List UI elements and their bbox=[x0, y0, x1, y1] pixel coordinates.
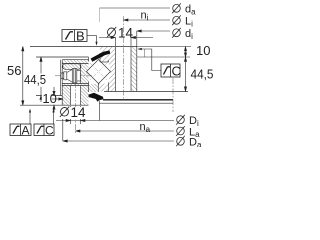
inner ring bolt hole verticals bbox=[115, 47, 117, 92]
svg-text:C: C bbox=[172, 64, 181, 79]
inner ring hatch right of hole bbox=[131, 47, 137, 92]
d_i leader bbox=[137, 30, 170, 32]
label phi D_i bbox=[176, 115, 185, 125]
L_a / n_a leader bbox=[76, 130, 175, 132]
svg-text:Li: Li bbox=[185, 16, 193, 29]
bearing axis centerline bbox=[172, 78, 174, 112]
svg-text:da: da bbox=[185, 4, 196, 17]
dim 10 right bbox=[185, 47, 187, 58]
flag C bottom bbox=[34, 124, 54, 136]
outer ring wall right of nipple recess bbox=[80, 64, 88, 84]
text masks bbox=[25, 74, 89, 120]
outer ring upper section hatch bbox=[62, 60, 88, 64]
D_a leader bbox=[63, 140, 174, 142]
inner ring ID edge bbox=[136, 47, 138, 92]
svg-text:na: na bbox=[140, 121, 151, 134]
outer/gap boundary vertical x=88 bbox=[88, 57, 90, 62]
dim 10 left bbox=[53, 87, 55, 92]
svg-text:Da: Da bbox=[189, 137, 202, 147]
svg-text:44,5: 44,5 bbox=[191, 67, 214, 82]
svg-text:14: 14 bbox=[118, 26, 134, 41]
label phi d_i bbox=[172, 28, 181, 38]
gap under roller bbox=[97, 84, 99, 93]
svg-text:44,5: 44,5 bbox=[24, 72, 46, 87]
n_i / L_i leader bbox=[124, 19, 171, 21]
dim 56 left bbox=[22, 47, 24, 106]
texts bbox=[7, 43, 214, 106]
inner ring hatch wedge under roller right bbox=[98, 84, 108, 92]
abutment thin line lower bbox=[100, 102, 174, 104]
grease nipple centerline bbox=[55, 75, 92, 77]
outer ring hatch beside bolt hole upper bbox=[62, 86, 70, 106]
label phi L_a bbox=[176, 126, 185, 136]
dim 44,5 left bbox=[40, 57, 42, 102]
housing pilot contour bbox=[144, 49, 146, 57]
label phi14 top bbox=[107, 27, 116, 37]
roller diagonal centerlines bbox=[90, 63, 107, 80]
flag C right bbox=[161, 64, 180, 77]
svg-text:10: 10 bbox=[42, 91, 56, 106]
bottom face + left extension bbox=[20, 104, 89, 106]
dimension lines bbox=[22, 8, 191, 142]
svg-text:A: A bbox=[22, 124, 30, 138]
roller (crossed roller, diamond) bbox=[87, 60, 111, 84]
inner ring top face line + left extension bbox=[30, 46, 137, 48]
svg-text:B: B bbox=[76, 29, 85, 44]
nipple recess stadium (lube channel) bbox=[63, 64, 81, 70]
svg-text:56: 56 bbox=[7, 63, 21, 78]
split line between outer ring pieces bbox=[36, 95, 62, 97]
grease nipple bbox=[61, 69, 81, 84]
label phi L_i bbox=[172, 15, 181, 25]
svg-text:ni: ni bbox=[141, 10, 149, 23]
upper seal (black) bbox=[91, 50, 111, 61]
inner ring bottom face bbox=[104, 91, 188, 93]
dim 44,5 right bbox=[185, 57, 187, 92]
flag A bottom bbox=[10, 124, 31, 136]
hole centerline inner ring bbox=[123, 16, 125, 100]
outer ring upper hatch below recess bbox=[62, 84, 88, 86]
recess top bbox=[62, 63, 88, 65]
label phi14 bottom bbox=[60, 107, 69, 117]
outer ring top face bbox=[36, 56, 89, 58]
dim phi14 bottom + D_i leader bbox=[56, 120, 174, 122]
recess floor / counterbore double lines bbox=[62, 83, 88, 85]
label phi d_a bbox=[172, 3, 181, 13]
outer ring OD double line bbox=[60, 60, 62, 96]
lower seal (black) bbox=[89, 93, 104, 102]
svg-text:C: C bbox=[45, 124, 54, 138]
svg-text:di: di bbox=[185, 28, 193, 41]
main outlines bbox=[20, 47, 188, 106]
inner ring hatch left of hole bbox=[100, 47, 116, 92]
inner ring lip bbox=[99, 53, 101, 62]
dim phi14 top bbox=[99, 37, 116, 39]
d_a leader bbox=[100, 7, 171, 9]
flag B bbox=[62, 30, 87, 42]
svg-text:14: 14 bbox=[71, 105, 87, 120]
abutment bold contour bbox=[103, 99, 173, 101]
bolt hole outer ring verticals bbox=[70, 86, 72, 106]
svg-text:10: 10 bbox=[196, 43, 210, 58]
outer ring wedge under roller bbox=[89, 82, 99, 92]
hole centerline outer ring bbox=[75, 82, 77, 133]
label phi D_a bbox=[176, 136, 185, 146]
inner ring V edges bbox=[108, 61, 110, 63]
